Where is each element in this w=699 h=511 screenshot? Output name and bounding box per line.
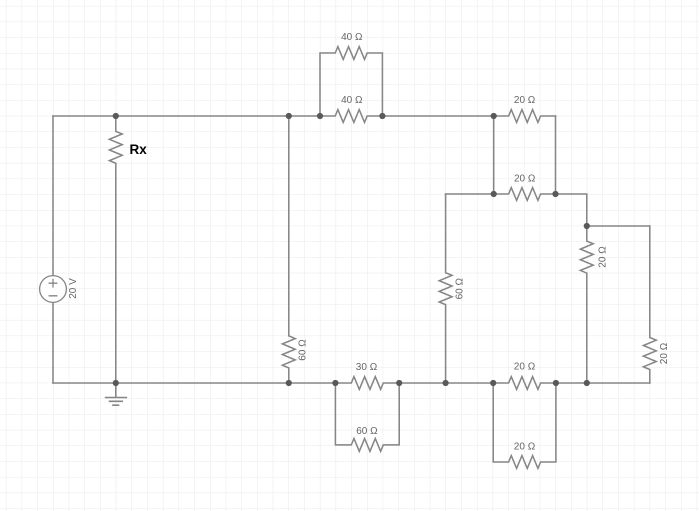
- voltage source V1 20 V: [40, 276, 79, 303]
- wire: node B row left segment: [446, 193, 494, 195]
- wire: bottom rail segment 1 (ground net): [53, 382, 335, 384]
- svg-text:40 Ω: 40 Ω: [341, 32, 363, 43]
- svg-text:20 Ω: 20 Ω: [514, 174, 536, 185]
- svg-text:30 Ω: 30 Ω: [356, 362, 378, 373]
- wire: node C to corner and down to node D: [556, 194, 587, 226]
- junction: top rail / 20 Ω ladder left: [491, 113, 497, 119]
- junction: node D: [584, 223, 590, 229]
- svg-text:60 Ω: 60 Ω: [356, 426, 378, 437]
- svg-text:60 Ω: 60 Ω: [298, 339, 309, 361]
- wire: top rail middle segment: [382, 115, 493, 117]
- junction: top rail / 40 Ω loop right: [379, 113, 385, 119]
- wire: bottom rail segment 3: [556, 382, 587, 384]
- resistor Rx (vertical at x=115.8 from top rail to bottom rail): [109, 116, 147, 383]
- junction: bottom rail / 60 Ω branch: [286, 380, 292, 386]
- resistor 20 Ω (vertical right loop at x=649.8): [643, 226, 670, 383]
- svg-text:20 Ω: 20 Ω: [514, 362, 536, 373]
- junction: top rail / Rx: [113, 113, 119, 119]
- resistor 20 Ω (node B to node C row): [494, 174, 556, 201]
- junction: bottom rail / 60 Ω vertical: [443, 380, 449, 386]
- svg-text:20 Ω: 20 Ω: [514, 441, 536, 452]
- junction: bottom rail / ground / Rx: [113, 380, 119, 386]
- resistor 60 Ω (parallel loop below 30 Ω): [335, 383, 399, 451]
- wire: bottom rail segment 4: [587, 382, 650, 384]
- resistor 40 Ω (in top rail): [320, 95, 382, 122]
- junction: top rail / 60 Ω branch: [286, 113, 292, 119]
- junction: bottom rail / 20-20 loop left: [490, 380, 496, 386]
- resistor 20 Ω (top rail right): [494, 95, 556, 122]
- resistor 20 Ω (parallel loop below bottom rail): [493, 383, 556, 468]
- svg-text:20 V: 20 V: [68, 278, 79, 299]
- resistor 20 Ω (vertical at x=586.8 from node D to bottom rail): [580, 226, 608, 383]
- wire: node D to right loop top: [587, 225, 650, 227]
- junction: bottom rail / 30-60 loop left: [332, 380, 338, 386]
- resistor 60 Ω (vertical at x=288.8 from top rail to bottom rail): [282, 116, 308, 383]
- resistor 30 Ω (in bottom rail): [335, 362, 399, 389]
- wire: top rail left segment (node A): [53, 115, 320, 117]
- junction: bottom rail / 30-60 loop right: [396, 380, 402, 386]
- wire: vertical drop at x=555.5 between top rail and node C: [555, 116, 557, 194]
- wire: left branch upper segment (source to top rail): [52, 116, 54, 276]
- wire: left branch lower segment (source to bottom rail): [52, 302, 54, 383]
- wire: bottom rail segment 2: [399, 382, 493, 384]
- svg-text:Rx: Rx: [130, 142, 148, 157]
- junction: node C: [552, 191, 558, 197]
- svg-text:20 Ω: 20 Ω: [659, 342, 670, 364]
- junction: bottom rail / 20-20 loop right: [553, 380, 559, 386]
- junction: bottom rail / right branch: [584, 380, 590, 386]
- svg-text:60 Ω: 60 Ω: [455, 277, 466, 299]
- resistor 20 Ω (in bottom rail right): [493, 362, 556, 390]
- junction: top rail / 40 Ω loop left: [317, 113, 323, 119]
- svg-text:20 Ω: 20 Ω: [597, 246, 608, 268]
- ground: [106, 383, 127, 405]
- junction: node B: [491, 191, 497, 197]
- resistor 40 Ω (top parallel branch): [320, 32, 382, 116]
- svg-text:40 Ω: 40 Ω: [341, 95, 363, 106]
- wire: vertical drop at x=493.7 between top rail and node B: [493, 116, 495, 194]
- resistor 60 Ω (vertical at x=445.6 from node B row to bottom rail): [439, 194, 465, 383]
- svg-text:20 Ω: 20 Ω: [514, 95, 536, 106]
